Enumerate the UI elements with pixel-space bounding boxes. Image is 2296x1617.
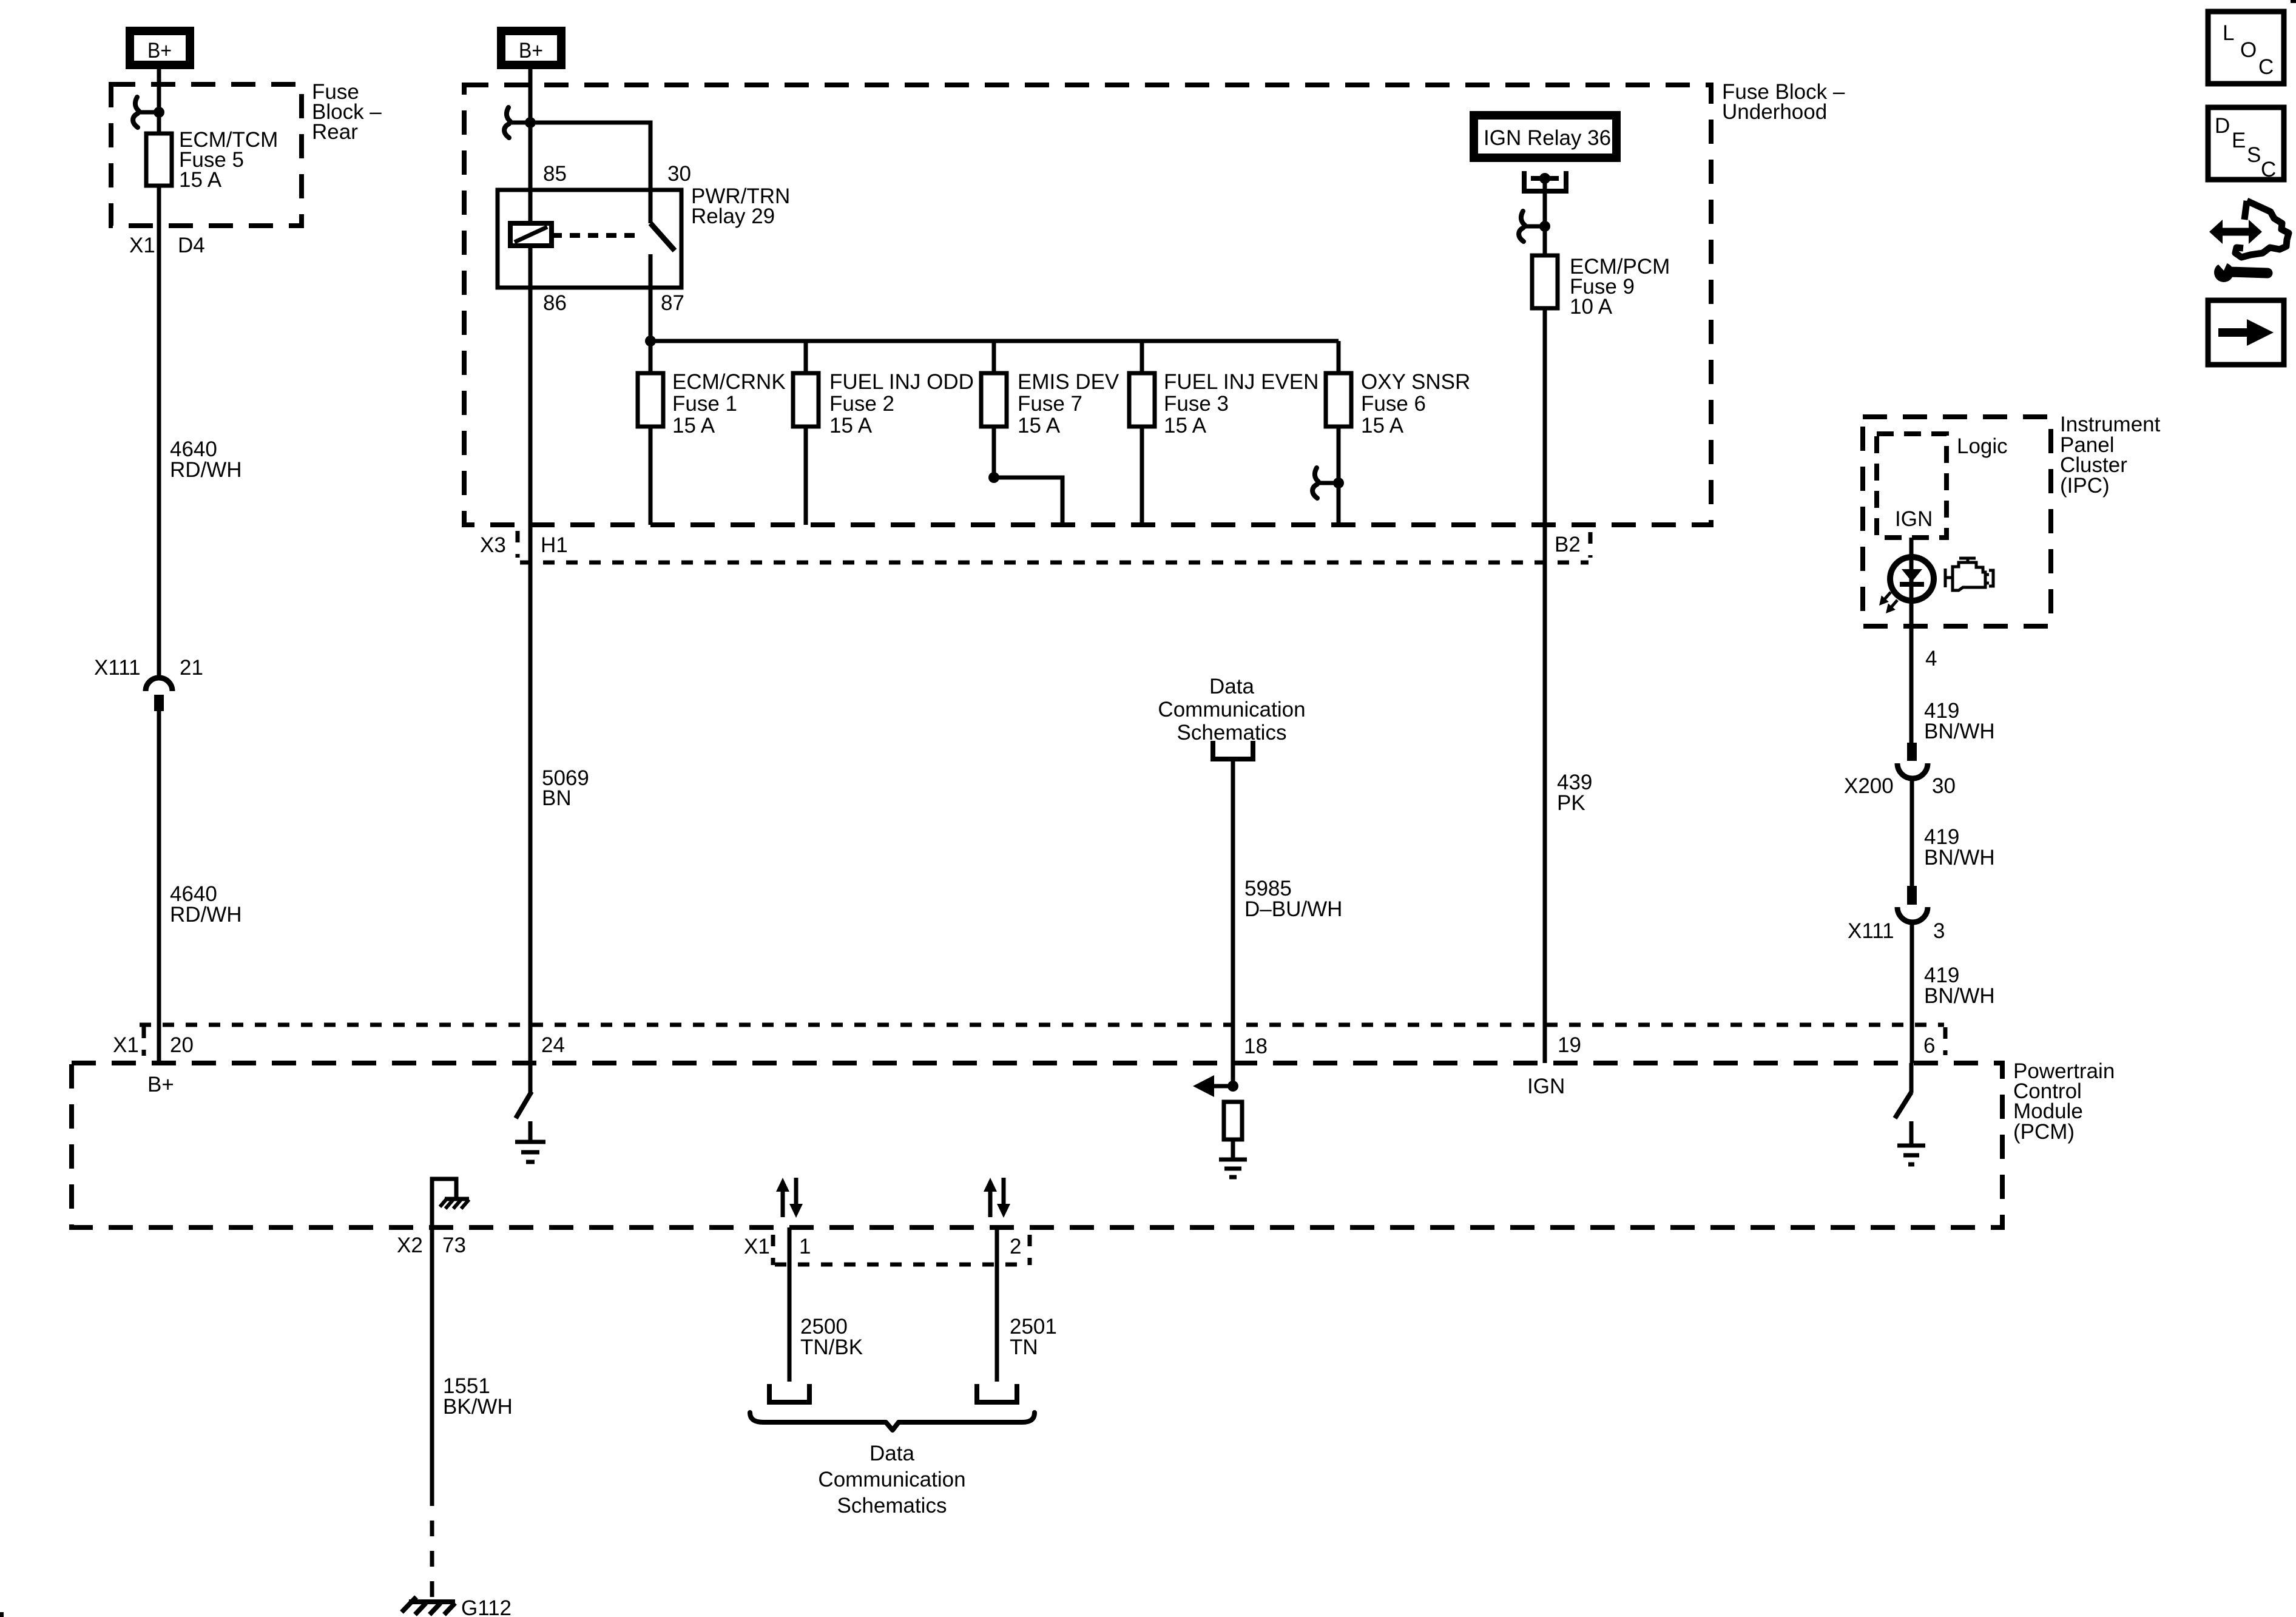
- PCM X1 connector dotted line: [140, 1023, 1944, 1027]
- svg-text:30: 30: [1932, 774, 1956, 798]
- connector separator at pin 6: [1943, 1027, 1948, 1055]
- svg-text:B+: B+: [147, 39, 172, 62]
- resistor inside PCM at pin 18: [1224, 1102, 1242, 1139]
- svg-text:H1: H1: [541, 533, 568, 557]
- wire bus to fuse 2: [804, 341, 808, 373]
- connector X3 / H1 dotted line under fuse block: [480, 531, 1590, 562]
- fuse F2 FUEL INJ ODD: [793, 373, 819, 427]
- wire 1551 to G112: [430, 1227, 434, 1506]
- bidirectional arrows at pin 1: [776, 1178, 803, 1218]
- svg-text:73: 73: [442, 1234, 466, 1257]
- icon component view with arrow and wrench: [2209, 201, 2289, 282]
- wire X200 to X111: [1910, 778, 1914, 886]
- relay actuation dashed link: [552, 233, 642, 238]
- bidirectional arrows at pin 2: [984, 1178, 1010, 1218]
- LED cathode bar: [1900, 582, 1924, 587]
- wire fuse 6 output: [1337, 427, 1341, 525]
- indicator LED circle: [1890, 557, 1934, 601]
- fuse F1 ECM/CRNK: [638, 373, 663, 427]
- wire relay pin 87 to fuse bus: [649, 254, 653, 341]
- relay switch blade: [650, 223, 675, 251]
- svg-text:B2: B2: [1555, 533, 1581, 556]
- icon DESC box: [2208, 107, 2284, 181]
- svg-text:X1: X1: [113, 1033, 139, 1057]
- svg-text:C: C: [2258, 55, 2274, 79]
- svg-text:X1: X1: [744, 1235, 770, 1258]
- wire fuse 1 output: [649, 427, 653, 525]
- svg-text:18: 18: [1244, 1035, 1268, 1058]
- svg-text:X1: X1: [129, 234, 155, 257]
- wire from B+ to fuse 5 and down to X111 connector: [157, 67, 161, 677]
- svg-text:S: S: [2247, 143, 2261, 167]
- relay K29 PWR/TRN Relay box: [498, 190, 681, 288]
- Logic dashed box: [1877, 434, 1947, 538]
- Instrument Panel Cluster dashed box: [1863, 417, 2051, 626]
- power symbol B+ (middle): [497, 27, 566, 69]
- svg-text:6: 6: [1923, 1034, 1935, 1058]
- chassis ground symbol inside PCM: [440, 1199, 469, 1209]
- fuse F6 OXY SNSR: [1326, 373, 1351, 427]
- svg-text:2: 2: [1010, 1235, 1021, 1258]
- off-page connector bracket: [1213, 741, 1253, 759]
- wire IGN logic through lamp to pin 4: [1909, 538, 1914, 743]
- wire pin 73 to chassis ground inside PCM: [432, 1179, 456, 1227]
- svg-text:L: L: [2223, 21, 2234, 45]
- wire bus to fuse 7: [992, 341, 996, 373]
- bus tap hook on fuse 6 output: [1312, 468, 1344, 498]
- svg-text:E: E: [2232, 129, 2246, 152]
- svg-text:X2: X2: [397, 1234, 423, 1257]
- svg-text:30: 30: [667, 162, 691, 186]
- switch blade at pin 6: [1895, 1092, 1911, 1118]
- junction node at fuse bus: [645, 336, 656, 346]
- Fuse Block - Rear dashed box: [111, 84, 302, 226]
- LED emission arrows: [1876, 592, 1897, 616]
- svg-text:IGN: IGN: [1895, 507, 1933, 531]
- icon LOC box: [2208, 12, 2284, 84]
- svg-text:C: C: [2261, 158, 2276, 181]
- wire 2500 serial data: [788, 1227, 792, 1382]
- svg-text:B+: B+: [519, 39, 543, 62]
- icon next arrow box: [2208, 300, 2284, 365]
- ground inside PCM at pin 6: [1897, 1121, 1925, 1164]
- wire fuse 7 output with jog: [994, 427, 1062, 525]
- inline connector X111 pin 3: [1897, 886, 1928, 922]
- svg-text:19: 19: [1558, 1033, 1581, 1057]
- LED diode triangle: [1902, 569, 1922, 582]
- svg-text:X111: X111: [1848, 919, 1894, 943]
- wire from B+ to relay pin 85: [528, 67, 533, 224]
- svg-text:Fuse Block –Underhood: Fuse Block –Underhood: [1722, 80, 1845, 124]
- svg-text:21: 21: [180, 656, 203, 680]
- junction node on fuse 7 output: [988, 472, 999, 483]
- svg-text:X111: X111: [94, 656, 141, 680]
- signal direction arrow at pin 18: [1193, 1075, 1238, 1097]
- ground inside PCM at pin 24: [515, 1121, 545, 1162]
- svg-text:X200: X200: [1844, 774, 1894, 798]
- fuse ECM/TCM Fuse 5 15A: [146, 133, 172, 186]
- svg-text:85: 85: [543, 162, 567, 186]
- inline connector X111 pin 21: [146, 678, 172, 711]
- svg-text:G112: G112: [461, 1596, 512, 1617]
- wire IGN relay to fuse 9: [1543, 178, 1547, 255]
- wire bus to fuse 3: [1140, 341, 1144, 373]
- Fuse Block - Underhood dashed box: [464, 85, 1711, 525]
- wire pin 6 inside PCM: [1909, 1063, 1914, 1093]
- Powertrain Control Module dashed box: [72, 1063, 2002, 1227]
- svg-text:IGN: IGN: [1527, 1075, 1565, 1098]
- svg-text:86: 86: [543, 291, 567, 315]
- relay output terminal bracket: [1524, 171, 1566, 191]
- svg-text:1: 1: [799, 1235, 811, 1258]
- page artifact dot bottom left: [0, 1612, 4, 1617]
- svg-text:IGN Relay 36: IGN Relay 36: [1484, 126, 1611, 150]
- wire fuse 2 output: [804, 427, 808, 525]
- wire fuse 9 to PCM pin 19: [1543, 308, 1547, 1063]
- svg-text:20: 20: [170, 1033, 194, 1057]
- connector label X2 pin 73: [397, 1234, 466, 1257]
- svg-text:D: D: [2215, 114, 2230, 138]
- svg-text:3: 3: [1933, 919, 1945, 943]
- inline connector X200 pin 30: [1897, 743, 1928, 778]
- connector label X1 pins 1 and 2: [744, 1235, 1030, 1265]
- wire from X111 connector to PCM pin 20: [157, 711, 161, 1063]
- ground inside PCM at pin 18: [1219, 1139, 1247, 1177]
- brace grouping serial data wires: [750, 1413, 1035, 1430]
- fuse F9 ECM/PCM: [1532, 255, 1558, 308]
- connector label X1 pin 20: [113, 1027, 194, 1057]
- svg-text:24: 24: [541, 1033, 565, 1057]
- wire bus to fuse 6: [1337, 341, 1341, 373]
- svg-text:D4: D4: [178, 234, 205, 257]
- wire X111 to PCM pin 6: [1910, 922, 1914, 1063]
- wire relay coil to PCM pin 24: [528, 246, 533, 1093]
- wire 5985 to PCM pin 18: [1231, 759, 1235, 1086]
- page artifact dot top right: [2291, 0, 2296, 3]
- svg-text:B+: B+: [147, 1073, 174, 1096]
- off-page bracket at wire 2500: [769, 1384, 809, 1402]
- svg-text:O: O: [2240, 38, 2257, 62]
- fuse F7 EMIS DEV: [981, 373, 1007, 427]
- svg-text:Logic: Logic: [1957, 434, 2008, 458]
- dashed wire continuation to G112: [430, 1506, 434, 1600]
- bus tap hook at B+ rear feed: [133, 97, 164, 127]
- svg-text:87: 87: [661, 291, 684, 315]
- fuse F3 FUEL INJ EVEN: [1129, 373, 1155, 427]
- switch blade at pin 24: [516, 1092, 532, 1118]
- power symbol IGN Relay 36: [1470, 111, 1621, 162]
- ground G112 chassis symbol: [402, 1597, 455, 1615]
- wire fuse 3 output: [1140, 427, 1144, 525]
- wire bus to fuse 1: [649, 341, 653, 373]
- check engine icon: [1945, 558, 1993, 590]
- svg-text:X3: X3: [480, 533, 506, 557]
- bus tap hook at B+ underhood feed: [504, 107, 536, 138]
- off-page bracket at wire 2501: [977, 1384, 1017, 1402]
- wire 2501 serial data: [995, 1227, 999, 1382]
- bus tap hook on ECM/PCM fuse feed: [1519, 211, 1550, 241]
- power symbol B+ (left): [126, 27, 194, 69]
- fuse feed bus wire: [650, 339, 1339, 343]
- relay coil: [510, 223, 552, 246]
- svg-text:4: 4: [1925, 647, 1937, 670]
- wire junction to relay pin 30: [530, 123, 650, 223]
